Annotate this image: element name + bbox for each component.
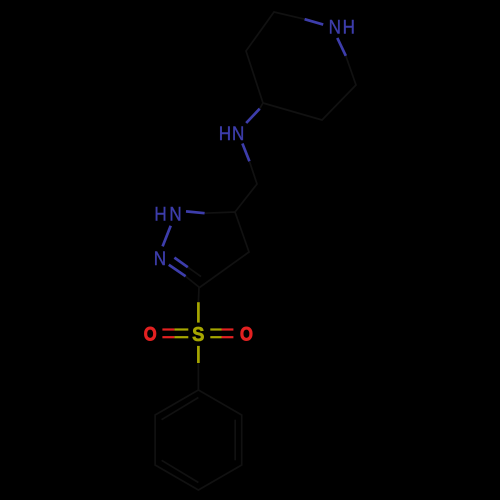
- piperidine ring skeleton (carbon bonds, near-black): [186, 12, 356, 390]
- wire N1-C5 N-half (pyrazole): [186, 211, 205, 213]
- svg-text:N: N: [154, 247, 166, 269]
- node S (sulfonyl sulfur): [192, 325, 204, 347]
- wire N-half bond from top NH down: [337, 38, 346, 56]
- wire S=O right, O halves: [222, 328, 234, 330]
- svg-text:N: N: [169, 202, 181, 224]
- wire C3 to S dark stub: [197, 288, 200, 303]
- node N (pyrazole N2): [154, 247, 166, 269]
- wire C-half of NH-CH2 bond and CH2-C5 bond: [235, 161, 257, 212]
- wire C-half of ring-CH to NH bond: [260, 103, 263, 109]
- wire N2=C3 main line N-half: [169, 265, 186, 277]
- wire N2=C3 inner line N-half: [174, 258, 187, 268]
- wire N1-N2 bond (full blue): [163, 226, 171, 247]
- wire N-half bond exo NH down: [242, 144, 249, 162]
- benzene ring (dark): [155, 390, 242, 490]
- wire C5-C4 and C4-C3 bonds (pyrazole): [200, 212, 250, 288]
- svg-text:O: O: [240, 323, 253, 345]
- svg-text:H: H: [219, 122, 231, 144]
- node O (left sulfonyl oxygen): [144, 323, 157, 345]
- svg-text:O: O: [144, 323, 157, 345]
- wire S to phenyl dark half: [197, 363, 199, 390]
- wire S=O right, S halves: [210, 328, 221, 330]
- wire S-phenyl bond S-half: [197, 346, 200, 363]
- node HN (exocyclic amine): [219, 122, 245, 144]
- wire N-half bond exo NH up: [246, 109, 260, 123]
- node HN (pyrazole N1): [154, 202, 181, 224]
- wire N-half bond to top NH (left): [163, 19, 346, 276]
- wire dark halves N2=C3: [186, 276, 200, 287]
- node O (right sulfonyl oxygen): [240, 323, 253, 345]
- sulfonyl bonds yellow halves: [197, 302, 200, 363]
- svg-text:N: N: [232, 122, 244, 144]
- svg-text:H: H: [154, 202, 166, 224]
- svg-text:S: S: [192, 325, 204, 347]
- S=O red halves: [162, 330, 233, 338]
- wire S=O left, S halves: [174, 328, 188, 330]
- wire C3-S bond S-half: [197, 302, 200, 322]
- wire S=O left, O halves: [162, 328, 174, 330]
- svg-text:H: H: [343, 15, 355, 37]
- node NH (piperidine nitrogen): [329, 15, 355, 37]
- svg-text:N: N: [329, 15, 341, 37]
